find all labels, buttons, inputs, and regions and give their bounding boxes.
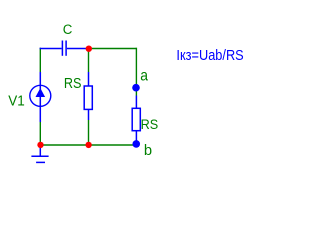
svg-text:RS: RS — [141, 116, 159, 132]
svg-text:Iкз=Uab/RS: Iкз=Uab/RS — [176, 47, 243, 64]
node b dot — [132, 140, 140, 148]
ground — [31, 146, 48, 162]
wire top (junction to top-right corner) — [89, 48, 137, 50]
resistor RS1 (middle) — [84, 72, 92, 120]
wire middle vertical (RS1 bottom pin to bottom wire) — [88, 120, 90, 145]
wire left vertical bottom (V1 bottom pin to bottom wire) — [39, 122, 41, 145]
resistor RS2 (right) — [132, 96, 140, 144]
wire right vertical (corner to node a) — [135, 48, 137, 88]
junction dot top (C / RS1 / right branch) — [86, 46, 92, 52]
wire bottom (ground node to node b) — [40, 144, 136, 146]
current source V1 — [30, 72, 51, 122]
svg-text:V1: V1 — [8, 94, 25, 110]
wire left vertical top (corner to V1 top pin) — [39, 48, 41, 72]
wire node a to RS2 top pin — [135, 88, 137, 96]
svg-text:RS: RS — [64, 76, 82, 92]
svg-text:a: a — [140, 67, 148, 84]
capacitor C — [40, 41, 89, 56]
junction dot bottom-left (V1 / ground) — [37, 142, 43, 148]
junction dot bottom-middle (RS1 / bottom wire) — [85, 142, 91, 148]
svg-text:C: C — [63, 22, 73, 37]
wire middle vertical (junction to RS1 top pin) — [88, 49, 90, 73]
svg-text:b: b — [144, 142, 152, 159]
node a dot — [132, 84, 140, 92]
